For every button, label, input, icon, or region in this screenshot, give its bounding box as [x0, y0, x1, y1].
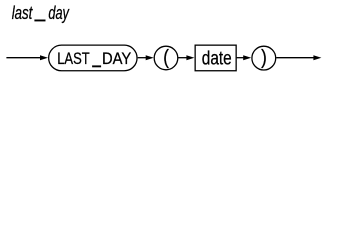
title last_day: [12, 4, 70, 24]
arrow into ): [243, 55, 251, 60]
arrow end: [313, 55, 321, 60]
terminal ): [252, 45, 276, 70]
arrow into LAST_DAY: [40, 55, 48, 60]
arrow into date: [186, 55, 194, 60]
svg-text:(: (: [163, 45, 169, 68]
svg-text:LAST: LAST: [57, 51, 90, 69]
non-terminal date: [195, 45, 236, 71]
arrow into (: [146, 55, 154, 60]
wire date to ): [237, 57, 245, 59]
wire start segment: [6, 57, 41, 59]
svg-text:date: date: [202, 47, 232, 69]
terminal LAST_DAY: [49, 45, 137, 71]
svg-text:): ): [261, 45, 267, 68]
svg-text:DAY: DAY: [102, 50, 132, 68]
wire end segment: [276, 57, 314, 59]
svg-text:day: day: [48, 4, 69, 24]
svg-text:last: last: [12, 4, 33, 23]
wire oval to (: [138, 57, 148, 59]
wire ( to date: [178, 57, 188, 59]
terminal (: [154, 45, 178, 69]
